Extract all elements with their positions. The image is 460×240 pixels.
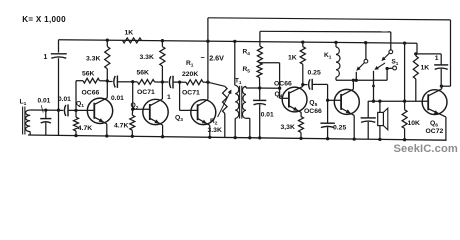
- wire Q2 base: [133, 108, 150, 110]
- switch S1 fixed contact: [385, 66, 396, 80]
- svg-text:1: 1: [435, 55, 439, 62]
- svg-text:K1: K1: [324, 52, 332, 61]
- label OC66 first: [82, 90, 100, 97]
- wire Q6 base node: [368, 100, 428, 103]
- wire Q5 base riser: [326, 84, 329, 122]
- resistor R5: [257, 63, 262, 88]
- capacitor 0.25 bypass: [320, 123, 334, 140]
- label -2.6V: [201, 53, 225, 62]
- label 0.01 fourth: [261, 111, 274, 118]
- svg-text:1K: 1K: [125, 29, 134, 36]
- svg-text:OC66: OC66: [274, 80, 292, 87]
- resistor 1K collector: [300, 42, 305, 64]
- label 4.7K first: [78, 125, 92, 132]
- label L1: [20, 98, 27, 107]
- label 220K: [182, 71, 198, 78]
- wire right edge to Q6 collector: [442, 20, 451, 86]
- resistor 3.3K stage4: [299, 112, 304, 140]
- resistor 1K in supply rail: [123, 38, 142, 43]
- wire Q5 base: [328, 99, 342, 101]
- svg-text:1: 1: [167, 94, 171, 101]
- resistor 4.7K stage1: [74, 110, 79, 137]
- node rail junction Q2: [161, 39, 164, 42]
- label Q2: [131, 102, 139, 111]
- svg-text:1K: 1K: [421, 65, 430, 72]
- svg-text:R2: R2: [210, 118, 218, 127]
- svg-text:0.01: 0.01: [111, 95, 124, 102]
- relay contact armature: [356, 43, 368, 80]
- wire -2.6V supply line: [206, 18, 209, 100]
- label K scale note: [22, 15, 66, 24]
- svg-text:4.7K: 4.7K: [78, 125, 92, 132]
- label 1 coupling: [167, 94, 171, 101]
- svg-text:0.01: 0.01: [261, 111, 274, 118]
- label 56K second: [137, 70, 150, 77]
- svg-text:1K: 1K: [288, 54, 297, 61]
- label SeekIC watermark: [394, 143, 458, 155]
- label 0.01 second: [58, 96, 71, 103]
- label R2: [210, 118, 218, 127]
- svg-text:R4: R4: [243, 48, 251, 57]
- wire upper feedback line A: [208, 18, 451, 20]
- label 1K rail: [125, 29, 134, 36]
- transistor Q3 OC71: [191, 99, 216, 139]
- resistor 1K output: [413, 43, 418, 101]
- label Q5: [309, 99, 317, 108]
- label 1K second: [288, 54, 297, 61]
- label 3.3K fourth: [281, 124, 295, 131]
- svg-text:56K: 56K: [82, 71, 95, 78]
- svg-text:10K: 10K: [408, 120, 421, 127]
- svg-text:56K: 56K: [137, 70, 150, 77]
- transistor Q2 OC71: [143, 82, 168, 138]
- capacitor 1uF output: [416, 54, 448, 88]
- label 10K: [408, 120, 421, 127]
- label OC71 second: [182, 90, 200, 97]
- node rail junction K1: [334, 41, 337, 44]
- label OC66 third: [304, 108, 322, 115]
- svg-text:0.25: 0.25: [333, 124, 346, 131]
- switch S1 pole B arm: [372, 63, 385, 101]
- svg-text:Q1: Q1: [76, 101, 84, 110]
- label R4: [243, 48, 251, 57]
- svg-text:−: −: [201, 53, 205, 62]
- node Q1 base junction: [74, 109, 77, 112]
- wire T1 primary feed: [234, 41, 236, 85]
- capacitor 0.01 coupling to Q2: [107, 76, 134, 88]
- transistor Q1 OC66: [87, 81, 112, 138]
- svg-text:3.3K: 3.3K: [208, 127, 222, 134]
- wire bottom ground rail: [28, 135, 447, 140]
- relay coil K1: [336, 42, 340, 80]
- node T1 primary feed: [233, 40, 236, 43]
- svg-text:2.6V: 2.6V: [209, 53, 224, 62]
- capacitor 0.01 tuning: [40, 105, 51, 135]
- resistor 3.3K stage1: [105, 40, 110, 82]
- inductor L1 antenna coil: [23, 107, 31, 136]
- svg-text:Q5: Q5: [309, 99, 317, 108]
- svg-text:R1: R1: [186, 60, 194, 69]
- svg-text:OC71: OC71: [182, 90, 200, 97]
- label S1: [392, 59, 399, 67]
- label 1: [44, 54, 48, 61]
- svg-text:220K: 220K: [182, 71, 198, 78]
- label Q1: [76, 101, 84, 110]
- resistor R2 variable 3.3K: [208, 82, 232, 137]
- wire Q1 base-to-56K riser: [75, 81, 77, 111]
- svg-text:3.3K: 3.3K: [140, 54, 154, 61]
- svg-text:0.01: 0.01: [58, 96, 71, 103]
- label 0.01 first: [38, 97, 51, 104]
- label Q4: [275, 91, 283, 100]
- label 3.3K third: [208, 127, 222, 134]
- label OC66 second: [274, 80, 292, 87]
- svg-text:0.25: 0.25: [308, 70, 321, 77]
- label 0.01 third: [111, 95, 124, 102]
- node rail junction 1K: [301, 40, 304, 43]
- label 0.25 second: [333, 124, 346, 131]
- svg-text:OC66: OC66: [304, 108, 322, 115]
- label 1 output: [435, 55, 439, 62]
- transformer T1: [234, 85, 252, 139]
- capacitor 1uF coupling to Q3: [162, 76, 181, 89]
- svg-text:Q4: Q4: [275, 91, 283, 100]
- wire R4R5 tap to Q4 base: [260, 63, 280, 99]
- label K1: [324, 52, 332, 61]
- capacitor 0.25 coupling: [301, 79, 327, 90]
- wire K1 to contacts: [336, 79, 387, 82]
- label OC72: [426, 128, 444, 135]
- capacitor bypass at speaker node: [361, 101, 376, 139]
- resistor R1 220K: [180, 80, 210, 85]
- svg-text:R5: R5: [243, 66, 251, 75]
- transistor Q4 OC66: [282, 64, 307, 112]
- capacitor 1uF supply decoupling: [51, 40, 67, 136]
- label Q3: [175, 114, 183, 123]
- label 4.7K second: [114, 122, 128, 129]
- svg-text:OC72: OC72: [426, 128, 444, 135]
- wire Q3 base riser: [180, 82, 198, 110]
- capacitor 0.01 coupling to Q1: [59, 104, 95, 116]
- resistor 3.3K stage2: [160, 41, 165, 84]
- svg-text:1: 1: [44, 54, 48, 61]
- resistor 56K stage1: [76, 78, 107, 83]
- wire Q4 base: [280, 97, 289, 99]
- svg-text:4.7K: 4.7K: [114, 122, 128, 129]
- svg-text:SeekIC.com: SeekIC.com: [394, 143, 458, 155]
- svg-text:0.01: 0.01: [38, 97, 51, 104]
- svg-text:S1: S1: [392, 59, 399, 67]
- node rail junction Q1: [106, 39, 109, 42]
- label Q6: [430, 120, 438, 129]
- wire 10K column: [403, 41, 406, 109]
- capacitor 0.01 bypass: [253, 88, 266, 140]
- wire upper line B to S1: [260, 30, 388, 33]
- svg-text:Q3: Q3: [175, 114, 183, 123]
- label T1: [235, 78, 242, 86]
- switch S1 pole A: [381, 32, 392, 61]
- svg-text:3.3K: 3.3K: [86, 56, 100, 63]
- svg-text:K= X 1,000: K= X 1,000: [22, 15, 66, 24]
- svg-text:L1: L1: [20, 98, 27, 107]
- label R5: [243, 66, 251, 75]
- wire L1 top node: [30, 108, 60, 111]
- label 3.3K first: [86, 56, 100, 63]
- transistor Q6 OC72: [422, 86, 447, 140]
- resistor 56K stage2: [133, 80, 163, 85]
- resistor 10K: [402, 110, 407, 142]
- transistor Q5 OC66: [334, 80, 359, 140]
- svg-text:3,3K: 3,3K: [281, 124, 295, 131]
- label 56K first: [82, 71, 95, 78]
- svg-text:OC71: OC71: [137, 89, 155, 96]
- label 0.25 first: [308, 70, 321, 77]
- label 3.3K second: [140, 54, 154, 61]
- resistor R4: [257, 31, 262, 63]
- label OC71 first: [137, 89, 155, 96]
- speaker: [378, 101, 388, 141]
- resistor 4.7K stage2: [130, 109, 135, 138]
- label 1K third: [421, 65, 430, 72]
- wire T1 secondary to Q4 base: [246, 86, 281, 90]
- wire Q2 base riser: [131, 82, 134, 111]
- wire top supply rail (-2.6V): [59, 40, 418, 44]
- svg-text:T1: T1: [235, 78, 242, 86]
- svg-text:OC66: OC66: [82, 90, 100, 97]
- label R1: [186, 60, 194, 69]
- node rail junction armature: [364, 41, 367, 44]
